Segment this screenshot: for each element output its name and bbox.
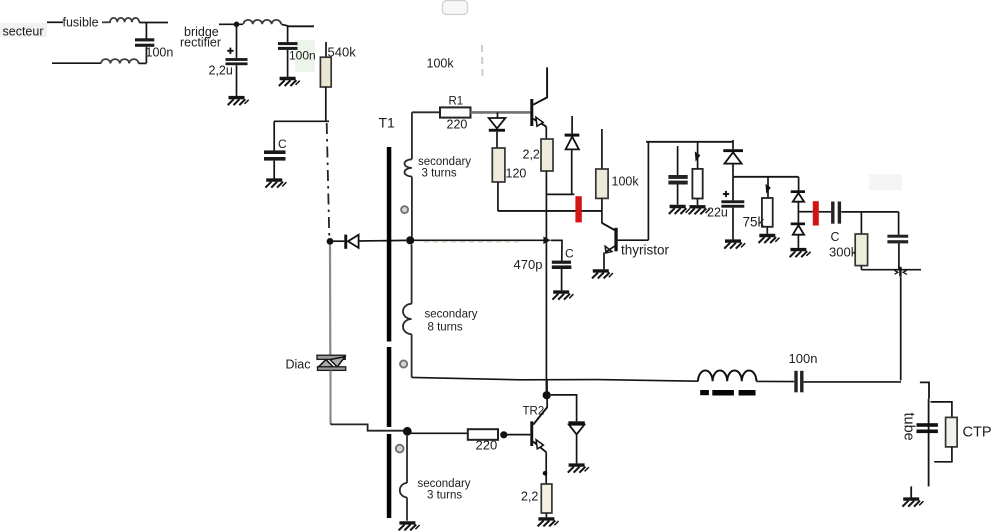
wire D7 to ground [576, 434, 578, 463]
wire cap to bottom [145, 47, 147, 63]
diode D1 horizontal cathode bar [344, 235, 347, 249]
wire secondary 3 turns top vertical [411, 112, 413, 159]
wire cap C branch vertical [273, 121, 275, 150]
faint gray dashed vertical artifact [481, 45, 484, 77]
resistor 120 [492, 148, 505, 182]
wire cap right to bottom rail [898, 243, 900, 269]
transformer T1 core segment 2 [387, 347, 392, 427]
svg-text:22u: 22u [707, 206, 728, 220]
wire thyristor cathode down [603, 252, 605, 269]
wire emitter branch to red mark [546, 193, 574, 195]
arrow head at emitter line junction [543, 237, 550, 245]
wire transformer to R1 [412, 111, 440, 113]
wire secondary 8 turns upper vertical [411, 245, 413, 304]
wire mains top lead [47, 21, 63, 23]
capacitor 100n mains [135, 38, 154, 41]
svg-text:3 turns: 3 turns [427, 490, 462, 502]
wire bridge output into node [219, 23, 243, 25]
ground below 75k [759, 236, 780, 244]
wire coil to corner [281, 24, 287, 42]
transistor TR1 base bar [530, 99, 533, 126]
svg-text:Diac: Diac [286, 358, 311, 372]
wire 75k to ground [766, 227, 768, 234]
wire top rail horizontal [646, 141, 733, 143]
node 220 right junction [500, 431, 507, 438]
wire 100k bottom lead [601, 198, 603, 223]
inductor smoothing coil top right [243, 20, 281, 24]
svg-text:100k: 100k [427, 57, 455, 71]
ground below 2,2u [228, 98, 249, 106]
transistor TR2 collector [533, 407, 547, 425]
green dashed overlay on center tap wire [424, 241, 521, 243]
svg-text:100n: 100n [289, 49, 316, 63]
diode D3 above red mark [571, 116, 573, 134]
svg-text:300k: 300k [829, 245, 858, 260]
svg-text:CTP: CTP [963, 425, 992, 441]
transistor TR2 emitter with arrow [533, 442, 546, 453]
wire 220 left lead [411, 432, 468, 434]
node center tap junction [406, 236, 414, 244]
diac upper triangle [330, 357, 345, 367]
winding secondary 3 turns bottom bump [400, 483, 407, 497]
wire 100k top lead [601, 129, 603, 169]
wire tube ground stub [910, 486, 912, 497]
ground below 100n second [279, 79, 300, 87]
wire center tap to arrow [414, 239, 544, 241]
ground below D7 [568, 465, 589, 473]
svg-text:tube: tube [901, 413, 917, 441]
scan tint patch behind secteur [0, 23, 47, 37]
wire diode pair mid stub to red mark 2 [798, 211, 812, 213]
wire 2,2u to ground [236, 65, 238, 96]
svg-text:2,2: 2,2 [523, 148, 540, 162]
transformer T1 core segment 3 [387, 434, 392, 518]
wire gate rail horizontal [498, 210, 602, 212]
capacitor 2,2u electrolytic plus sign [227, 50, 233, 52]
wire cap branch vertical [145, 23, 147, 39]
diode D2 below R1 wire [497, 112, 499, 118]
resistor 2,2 TR1 [541, 139, 553, 171]
wire second rail horizontal [733, 176, 799, 178]
wire 300k branch [860, 212, 862, 234]
wire between diode pair [797, 202, 799, 223]
wire D4 to second rail [732, 164, 734, 177]
wire corner down to cap right [898, 212, 900, 235]
thyristor anode diagonal [602, 223, 615, 230]
scan tint gray box upper right [869, 174, 902, 190]
svg-text:secondary: secondary [418, 156, 471, 168]
inductor core dash 1 [700, 390, 709, 395]
svg-text:secteur: secteur [3, 25, 44, 39]
inductor mains filter top coil [102, 18, 139, 23]
capacitor 470p plates [552, 261, 571, 264]
node transformer bottom junction [403, 427, 412, 436]
wire right rail vertical [647, 142, 649, 240]
ground below 470p [552, 292, 573, 300]
wire 22u top lead [732, 177, 734, 201]
winding secondary 3 turns bumps [405, 159, 412, 176]
ground below 22u [724, 241, 745, 249]
thyristor bar [614, 228, 617, 252]
diac top bar [317, 355, 345, 359]
diac bottom bar [318, 367, 346, 371]
svg-text:100n: 100n [146, 46, 174, 60]
red highlight bar 2 [813, 201, 819, 225]
wire coil to 100n [756, 380, 794, 382]
red highlight bar 1 [575, 196, 581, 222]
svg-text:2,2u: 2,2u [209, 64, 233, 78]
wire CTP top branch [931, 402, 952, 418]
resistor 540k [320, 57, 331, 87]
wire stub to 470p [551, 240, 562, 260]
inductor core dash 2 [712, 390, 734, 396]
svg-text:thyristor: thyristor [621, 243, 670, 258]
resistor CTP [946, 417, 958, 447]
capacitor 22u plus sign [723, 193, 729, 195]
wire 120 to gate rail [497, 182, 499, 211]
winding secondary 8 turns bumps [403, 304, 412, 334]
resistor R1 [440, 107, 471, 117]
potentiometer 75k lead with arrow [767, 177, 769, 198]
svg-text:3 turns: 3 turns [422, 168, 457, 180]
wire D3 to gate rail [571, 149, 573, 194]
terminal circle lower [396, 445, 404, 453]
capacitor 100n output bars [794, 371, 797, 393]
node bridge output junction [234, 22, 240, 28]
diode D7 triangle [569, 425, 584, 435]
wire secondary 3 turns bottom vertical [406, 436, 408, 483]
capacitor 100n second plates [278, 42, 298, 45]
transistor TR1 emitter with arrow [533, 119, 546, 127]
capacitor C left plates [264, 150, 286, 154]
wire 100n to tube junction [804, 381, 901, 383]
wire gray diac bottom lead [329, 371, 331, 424]
wire D2 to 120 [496, 132, 498, 148]
ground below diode pair [790, 250, 811, 258]
svg-text:C: C [278, 137, 287, 151]
ground below cap C left [265, 180, 286, 188]
wire 22u to ground [732, 208, 734, 240]
wire TR1 emitter to 2,2 [545, 126, 547, 139]
capacitor 22u plates [721, 200, 744, 203]
capacitor C coupling bars [831, 202, 834, 224]
wire collector node to diode D7 [551, 395, 577, 421]
svg-text:T1: T1 [379, 115, 396, 131]
terminal circle upper [401, 206, 408, 213]
svg-text:100n: 100n [789, 351, 818, 366]
wire 540k top lead [325, 42, 327, 57]
wire node to diode [333, 240, 344, 242]
wire main bottom rail [412, 377, 698, 381]
wire bottom coil to cap [139, 62, 147, 64]
diode D4 above 22u [732, 140, 734, 149]
wire cap to ground [677, 185, 679, 205]
wire to bottom ground [406, 497, 408, 520]
wire dash-dot vertical to diode node [327, 123, 330, 238]
wire lower junction rail [861, 269, 921, 271]
potentiometer upper right body [692, 169, 702, 199]
svg-text:220: 220 [476, 438, 498, 453]
capacitor right plates [887, 235, 908, 238]
wire down to bottom rail [900, 276, 902, 380]
node diode anode junction [327, 238, 334, 245]
wire secondary 8 turns lower vertical [411, 334, 413, 377]
inductor output coil [698, 370, 756, 381]
svg-text:8 turns: 8 turns [428, 322, 463, 334]
svg-text:C: C [565, 247, 574, 261]
diac lower triangle [318, 360, 333, 367]
ground below pot [689, 207, 710, 215]
svg-text:220: 220 [447, 118, 468, 132]
wire node down to 2,2u [236, 24, 238, 58]
capacitor filter upper right plates [668, 175, 687, 179]
wire 470p to ground [561, 269, 563, 290]
resistor 2,2 bottom [541, 484, 552, 513]
wire red mark to cap C right [819, 211, 831, 213]
transformer T1 core segment 1 [387, 147, 392, 342]
svg-text:2,2: 2,2 [521, 490, 538, 504]
ground below thyristor [592, 271, 613, 279]
terminal circle middle [400, 360, 407, 367]
junction mark with arrows [899, 267, 901, 276]
node TR2 collector junction [543, 391, 551, 399]
wire 300k bottom lead [860, 266, 862, 270]
wire gray down from node to diac [329, 245, 331, 356]
thyristor cathode arrow [605, 246, 612, 253]
svg-text:secondary: secondary [418, 478, 471, 490]
wire 220 to TR2 base [507, 434, 530, 436]
wire thyristor gate to right rail [618, 239, 649, 241]
diode D5 upper of pair [791, 190, 805, 193]
wire secondary 3 turns lower vertical [411, 177, 413, 237]
svg-text:rectifier: rectifier [180, 36, 221, 50]
svg-text:100k: 100k [612, 175, 640, 189]
wire mains bottom lead [52, 62, 101, 64]
wire R1 to TR1 base gray [471, 111, 531, 114]
wire 540k bottom lead [325, 87, 327, 121]
wire 2,2 to ground [545, 513, 547, 517]
scan tint rounded box top middle [443, 1, 468, 15]
capacitor tube plates [917, 423, 938, 427]
resistor 220 bottom [468, 429, 498, 440]
wire CTP bottom branch [934, 447, 952, 462]
inductor mains filter bottom coil [101, 59, 139, 63]
wire TR2 emitter down [545, 452, 547, 484]
transistor TR2 base bar [530, 421, 533, 446]
wire emitter line down through junctions [545, 171, 547, 391]
ground below filter cap [669, 207, 690, 215]
svg-text:75k: 75k [743, 215, 765, 230]
ground below bottom winding [399, 523, 420, 531]
svg-text:C: C [831, 230, 840, 244]
ground below tube [902, 499, 923, 507]
scan tint patch near 100n cap of bridge [295, 40, 315, 72]
wire tube vertical line [928, 399, 930, 487]
wire diode to transformer center tap [359, 239, 406, 242]
resistor 75k body [762, 198, 773, 227]
svg-text:470p: 470p [514, 257, 543, 272]
wire top coil to node [139, 22, 168, 24]
wire pot to ground [697, 199, 699, 206]
wire DC out stub [288, 25, 314, 27]
resistor 300k [855, 234, 867, 266]
svg-text:secondary: secondary [425, 309, 478, 321]
inductor core dash 3 [739, 390, 756, 396]
wire diac to transformer bottom junction [331, 423, 404, 431]
wire 100n second to ground [287, 50, 289, 77]
transistor TR1 collector [533, 67, 547, 104]
capacitor filter upper right lead [677, 146, 679, 175]
wire horizontal to cap C [274, 120, 329, 122]
wire diode pair to ground [797, 235, 799, 248]
ground below 2,2 bottom [538, 519, 559, 527]
wire tube top stub [920, 382, 929, 398]
wire cap C to corner [841, 211, 898, 213]
diode D7 bar [568, 421, 584, 424]
node small emitter dot [543, 471, 548, 476]
capacitor 2,2u plates [226, 58, 248, 61]
svg-text:fusible: fusible [63, 16, 99, 30]
potentiometer upper right lead with arrow [697, 142, 699, 169]
diode D6 lower of pair [791, 223, 805, 226]
diode D1 triangle [348, 235, 359, 248]
svg-text:120: 120 [506, 167, 527, 181]
wire rail corner down to diode pair [798, 177, 800, 191]
wire cap C to ground [273, 161, 275, 179]
resistor 100k right [596, 169, 608, 198]
svg-text:R1: R1 [449, 96, 464, 108]
